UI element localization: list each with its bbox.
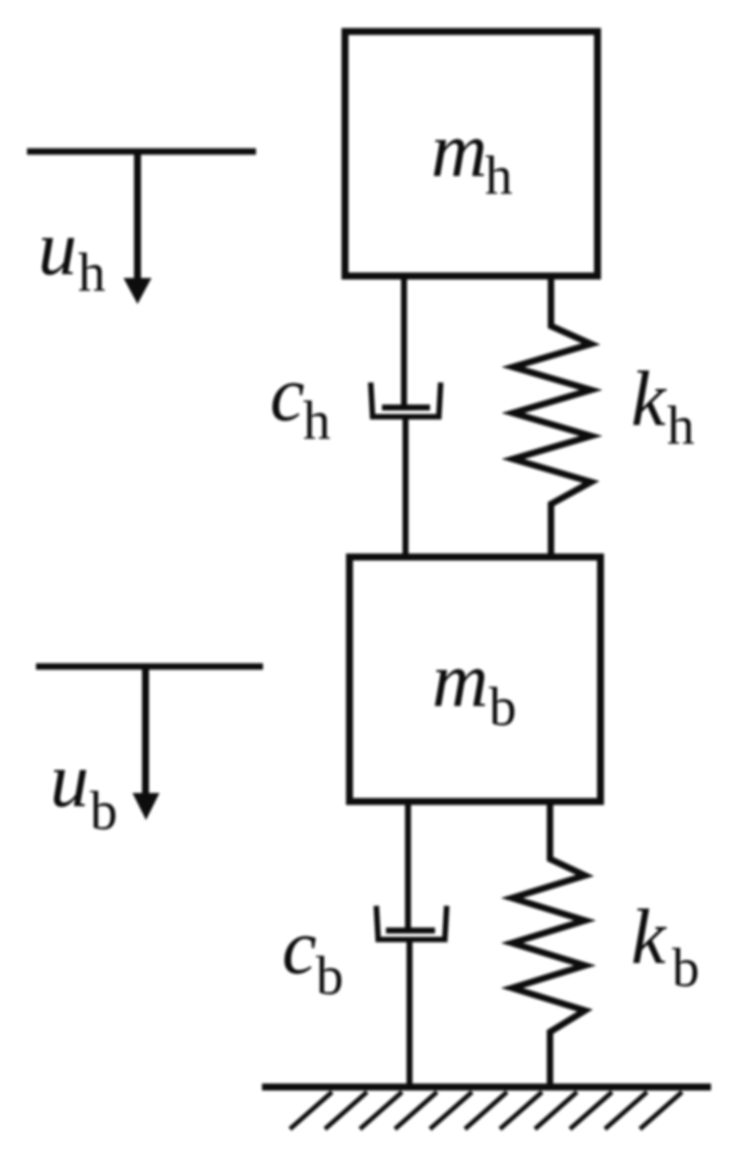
spring k_b	[512, 803, 585, 1087]
svg-text:k: k	[631, 893, 667, 980]
arrow u_b head	[133, 793, 160, 820]
svg-text:u: u	[38, 204, 77, 291]
svg-text:b: b	[489, 676, 517, 737]
arrow u_h head	[124, 278, 152, 304]
damper c_b piston plate	[386, 928, 435, 934]
svg-text:c: c	[282, 903, 317, 990]
svg-text:c: c	[270, 350, 305, 437]
spring k_h	[513, 279, 591, 557]
svg-text:b: b	[90, 780, 118, 841]
reference line u_h	[27, 148, 256, 155]
svg-text:m: m	[432, 636, 488, 723]
arrow u_b shaft	[142, 667, 149, 794]
damper c_b cup	[376, 906, 446, 940]
damper c_b top rod	[405, 803, 411, 932]
svg-text:k: k	[631, 355, 667, 442]
damper c_b bottom rod	[407, 940, 413, 1088]
damper c_h top rod	[401, 278, 407, 409]
reference line u_b	[36, 663, 263, 670]
svg-text:b: b	[672, 937, 700, 998]
svg-text:h: h	[303, 390, 331, 451]
damper c_h piston plate	[382, 405, 430, 411]
svg-text:u: u	[50, 736, 89, 823]
ground hatching	[290, 1092, 682, 1129]
svg-text:h: h	[485, 145, 513, 206]
ground line	[262, 1084, 711, 1091]
damper c_h cup	[371, 383, 441, 417]
svg-text:h: h	[667, 395, 695, 456]
arrow u_h shaft	[134, 152, 141, 279]
damper c_h bottom rod	[403, 417, 409, 557]
mass m_h box	[345, 32, 598, 277]
svg-text:b: b	[316, 945, 344, 1006]
mass m_b box	[350, 557, 601, 802]
svg-text:h: h	[78, 242, 106, 303]
svg-text:m: m	[431, 106, 487, 193]
